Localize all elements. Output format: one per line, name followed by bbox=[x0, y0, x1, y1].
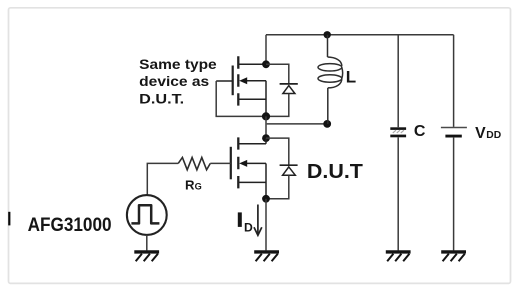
value label: L bbox=[346, 68, 356, 87]
ground: D.U.T. source bbox=[254, 252, 279, 261]
wire: generator to ground bbox=[146, 235, 148, 251]
wire: switch node to inductor bottom bbox=[267, 123, 328, 125]
capacitor C bbox=[390, 127, 406, 137]
svg-text:L: L bbox=[346, 68, 356, 87]
junction node: inductor bottom bbox=[323, 120, 331, 128]
wire: Q2 diode bottom link bbox=[266, 175, 289, 198]
wire: Q2 diode top link bbox=[266, 138, 289, 165]
svg-text:R: R bbox=[185, 178, 195, 193]
wire: C branch bottom bbox=[397, 137, 399, 250]
svg-text:DD: DD bbox=[486, 130, 501, 141]
current label: ID text bbox=[238, 212, 253, 234]
svg-text:Same type: Same type bbox=[139, 57, 217, 73]
label: AFG31000 bbox=[28, 215, 112, 236]
svg-text:D: D bbox=[244, 220, 253, 234]
value label: C bbox=[414, 123, 426, 140]
wire: Q1 diode bottom link bbox=[266, 94, 289, 117]
label: VDD bbox=[475, 125, 501, 142]
wire: VDD branch bottom bbox=[453, 138, 455, 251]
wire: top rail bbox=[266, 34, 454, 36]
ground: generator bbox=[134, 252, 159, 261]
diode D1 (body diode of Q1) bbox=[280, 84, 298, 94]
diode D2 (body diode of D.U.T.) bbox=[280, 165, 298, 175]
inductor L bbox=[318, 35, 343, 124]
svg-text:C: C bbox=[414, 123, 426, 140]
svg-text:D.U.T: D.U.T bbox=[307, 161, 363, 183]
transistor Q1 (same type device as D.U.T.) bbox=[216, 56, 266, 116]
svg-text:D.U.T.: D.U.T. bbox=[139, 92, 184, 108]
wire: spine Q1 source to Q2 drain bbox=[265, 116, 267, 138]
wire: Q1 diode top link bbox=[266, 64, 289, 83]
battery VDD bbox=[441, 128, 467, 137]
wire: upper drain riser bbox=[265, 35, 267, 65]
source V1 pulse generator (AFG31000) bbox=[127, 195, 167, 235]
ground: VDD bbox=[441, 252, 466, 261]
junction node: Q1 source / switch node bbox=[262, 112, 270, 120]
ground: capacitor C bbox=[386, 252, 411, 261]
junction node: Q1 drain bbox=[262, 60, 270, 68]
junction node: Q2 source bbox=[262, 195, 270, 203]
resistor RG bbox=[178, 157, 210, 169]
label: Same type device as D.U.T. bbox=[139, 57, 217, 108]
wire: VDD branch top bbox=[453, 35, 455, 127]
label: D.U.T bbox=[307, 161, 363, 183]
svg-text:G: G bbox=[195, 182, 202, 192]
junction node: inductor top bbox=[324, 31, 331, 38]
wire: RG to gate bbox=[210, 162, 231, 164]
label: RG bbox=[185, 178, 202, 193]
wire: C branch top bbox=[397, 35, 399, 127]
svg-text:device as: device as bbox=[139, 74, 209, 90]
junction node: Q2 drain bbox=[262, 134, 270, 142]
transistor Q2 (D.U.T.) bbox=[231, 137, 266, 198]
svg-text:V: V bbox=[475, 125, 486, 142]
current label: ID arrow bbox=[254, 205, 262, 236]
wire: generator to RG bbox=[147, 163, 178, 195]
svg-text:AFG31000: AFG31000 bbox=[28, 215, 112, 236]
wire: Q1 gate-source tie bbox=[216, 81, 266, 116]
wire: Q2 source to ground bbox=[265, 199, 267, 251]
